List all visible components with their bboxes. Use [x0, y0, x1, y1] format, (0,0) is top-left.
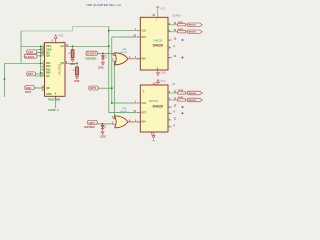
svg-text:GND: GND	[161, 71, 167, 74]
U1 left pin stubs	[34, 46, 45, 88]
net label CNT2 mid	[89, 86, 98, 90]
svg-text:SEGB1: SEGB1	[189, 32, 197, 34]
svg-text:INH: INH	[142, 59, 146, 61]
wire bus x40.6	[40, 46, 42, 77]
OR gate U5B	[112, 108, 134, 128]
svg-text:LED2: LED2	[100, 136, 107, 138]
net label CLKOUT mid	[85, 51, 97, 60]
wire vertical B	[112, 37, 136, 103]
wire gate2 out	[134, 121, 141, 123]
wire y63 left	[4, 62, 44, 64]
svg-text:INH: INH	[142, 122, 146, 124]
wire vertical C	[113, 61, 115, 119]
svg-text:D4026: D4026	[153, 44, 163, 48]
wire label to B	[98, 87, 112, 89]
ground under R1	[71, 58, 74, 62]
svg-text:U2.4026: U2.4026	[172, 16, 181, 18]
wire U1 out2 y63	[65, 62, 77, 64]
U3 bottom GND	[153, 132, 155, 135]
svg-text:330R: 330R	[178, 29, 184, 31]
IC U1 left counter	[34, 43, 69, 102]
U2 bottom GND	[157, 70, 159, 73]
net label CLKIN	[24, 54, 44, 59]
svg-text:U5A: U5A	[122, 48, 127, 51]
svg-text:QB: QB	[46, 55, 50, 58]
svg-text:CLKOUT: CLKOUT	[25, 57, 35, 59]
svg-text:VCC: VCC	[58, 35, 63, 38]
svg-text:CNT4: CNT4	[89, 122, 96, 125]
svg-text:QA: QA	[61, 45, 65, 48]
svg-text:CLK: CLK	[142, 31, 147, 33]
svg-text:GND: GND	[46, 93, 52, 96]
svg-text:RST: RST	[28, 73, 33, 76]
svg-text:CLKOUT: CLKOUT	[87, 54, 97, 56]
resistor R1	[68, 46, 75, 66]
U1 pin names	[46, 45, 52, 96]
wire label to gate2	[97, 123, 114, 125]
LED D1	[98, 53, 107, 69]
U1 right pin names	[61, 45, 65, 65]
svg-text:100R: 100R	[74, 81, 80, 83]
svg-text:74LS32: 74LS32	[120, 111, 128, 113]
svg-text:RST: RST	[142, 112, 147, 114]
svg-text:74HC26: 74HC26	[149, 100, 159, 103]
svg-text:VCC: VCC	[160, 80, 165, 83]
svg-text:SEGB2: SEGB2	[189, 100, 197, 102]
svg-text:SEGA1: SEGA1	[189, 24, 197, 27]
svg-text:CLK: CLK	[28, 51, 33, 54]
svg-text:CNT2: CNT2	[90, 87, 97, 90]
wire y46 left	[21, 45, 45, 47]
junction dots	[4, 30, 113, 125]
resistor R2	[73, 63, 80, 83]
svg-text:QC: QC	[46, 75, 50, 78]
IC U3 bottom right 4026	[133, 83, 183, 141]
svg-text:LED7SEG: LED7SEG	[85, 57, 96, 60]
svg-text:ENA: ENA	[26, 87, 31, 90]
svg-text:LED7SEG: LED7SEG	[84, 127, 95, 129]
U3 left pins	[136, 103, 140, 122]
wire gate1 out	[134, 58, 141, 60]
svg-text:LED4P: LED4P	[48, 109, 56, 112]
svg-text:330R: 330R	[178, 22, 184, 24]
U3 output R + flag row2	[178, 97, 203, 102]
net label gate2 input	[84, 120, 97, 129]
svg-text:74HC393N: 74HC393N	[48, 99, 61, 102]
svg-text:CNT4: CNT4	[25, 91, 32, 94]
svg-text:330R: 330R	[178, 90, 184, 92]
wire left rail x4.4	[3, 63, 5, 97]
svg-text:SEGA2: SEGA2	[189, 92, 197, 95]
wire U1 out1 y46	[65, 45, 109, 47]
svg-text:RST: RST	[142, 37, 147, 39]
svg-text:THE QUARTER MILL cnt: THE QUARTER MILL cnt	[86, 3, 121, 7]
wire y37 to U2	[112, 36, 136, 38]
VCC between ICs	[153, 79, 166, 85]
LED D2	[100, 124, 107, 138]
U2 output R + flag row1	[178, 22, 203, 27]
net label row y88	[25, 86, 45, 95]
svg-text:QD: QD	[46, 87, 50, 90]
svg-text:100R: 100R	[70, 64, 76, 66]
IC U2 top right 4026	[133, 7, 183, 76]
svg-text:74HC26: 74HC26	[153, 39, 163, 42]
svg-text:LED1: LED1	[98, 68, 105, 70]
U1 pin numbers	[41, 44, 44, 92]
wire H1 to U2 pin	[109, 30, 136, 32]
svg-text:VCC: VCC	[160, 7, 165, 10]
wire vertical x21	[20, 31, 22, 63]
wire vertical A	[109, 27, 136, 113]
U2 right pins	[168, 25, 178, 58]
U3 right pins	[168, 93, 178, 127]
U2 output R + flag row2	[178, 29, 203, 34]
U1 bottom pin wire + label	[48, 96, 59, 112]
U2 left pins	[136, 31, 140, 59]
svg-text:CLK: CLK	[142, 103, 147, 105]
ground under R2	[76, 75, 79, 79]
svg-text:330R: 330R	[178, 97, 184, 99]
net label row y74	[27, 72, 41, 76]
U3 output R + flag row1	[178, 90, 203, 95]
net label CLK	[27, 50, 45, 54]
wire net CLKOUT to gate1	[97, 53, 114, 55]
U1 VCC symbol top	[52, 35, 67, 44]
svg-text:74LS393: 74LS393	[57, 63, 61, 75]
OR gate U5A	[112, 48, 134, 65]
U2 top VCC	[157, 15, 159, 17]
wire H1 top left	[21, 27, 109, 32]
svg-text:D4026: D4026	[153, 104, 163, 108]
